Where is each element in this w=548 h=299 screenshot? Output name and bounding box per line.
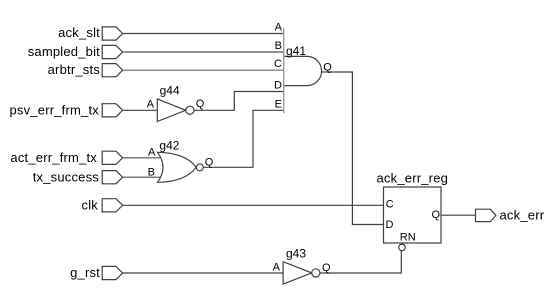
svg-text:C: C xyxy=(386,198,394,210)
svg-text:psv_err_frm_tx: psv_err_frm_tx xyxy=(10,103,100,118)
svg-text:g_rst: g_rst xyxy=(70,265,100,280)
svg-text:Q: Q xyxy=(205,157,214,169)
svg-text:A: A xyxy=(147,99,155,111)
svg-text:B: B xyxy=(275,40,282,52)
port ack_slt xyxy=(58,25,122,40)
svg-text:A: A xyxy=(148,146,156,158)
g44 pin A xyxy=(147,99,155,111)
g41 pin A xyxy=(275,21,283,33)
g42 pin A xyxy=(148,146,156,158)
g41 pin C xyxy=(274,58,282,70)
g42 pin B xyxy=(148,167,155,179)
svg-text:Q: Q xyxy=(432,209,441,221)
g41 label xyxy=(286,44,306,58)
and-gate g41 body xyxy=(284,56,322,85)
svg-text:arbtr_sts: arbtr_sts xyxy=(48,62,101,77)
g44 label xyxy=(160,83,180,97)
wire g41 Q to reg D xyxy=(322,72,384,225)
nor-gate g42 xyxy=(158,152,204,182)
wire g44 Q to g41 D xyxy=(194,92,284,111)
svg-text:A: A xyxy=(275,21,283,33)
svg-text:C: C xyxy=(274,58,282,70)
svg-text:A: A xyxy=(273,262,281,274)
svg-text:D: D xyxy=(386,219,394,231)
g42 pin Q xyxy=(205,157,214,169)
port psv_err_frm_tx xyxy=(10,103,123,118)
g43 pin A xyxy=(273,262,281,274)
and-gate g41 input bar xyxy=(283,28,285,113)
g41 pin B xyxy=(275,40,282,52)
g42 label xyxy=(159,138,179,152)
svg-text:ack_slt: ack_slt xyxy=(58,25,100,40)
svg-text:g41: g41 xyxy=(286,44,306,58)
svg-text:act_err_frm_tx: act_err_frm_tx xyxy=(10,150,97,165)
inverter g44 xyxy=(157,99,194,122)
wire sampled_bit to g41 B xyxy=(123,51,284,53)
port g_rst xyxy=(70,265,123,280)
svg-text:D: D xyxy=(274,79,282,91)
svg-text:Q: Q xyxy=(196,98,205,110)
wire tx_success to g42 B xyxy=(123,176,165,178)
g44 pin Q xyxy=(196,98,205,110)
svg-text:clk: clk xyxy=(82,198,99,213)
svg-text:ack_err: ack_err xyxy=(500,208,545,223)
port tx_success xyxy=(33,169,123,184)
svg-text:RN: RN xyxy=(400,231,416,243)
port arbtr_sts xyxy=(48,62,123,77)
reg RN bubble xyxy=(399,244,406,251)
svg-text:g43: g43 xyxy=(286,246,306,260)
wire act_err_frm_tx to g42 A xyxy=(123,157,164,159)
g41 pin E xyxy=(275,98,282,110)
g43 label xyxy=(286,246,306,260)
wire psv_err_frm_tx to g44 A xyxy=(123,109,158,111)
wire g43 Q to reg RN xyxy=(320,251,401,273)
reg pin D xyxy=(386,219,394,231)
wire g_rst to g43 A xyxy=(123,272,284,274)
wire ack_slt to g41 A xyxy=(123,33,284,35)
g43 pin Q xyxy=(322,262,331,274)
reg pin C xyxy=(386,198,394,210)
svg-text:B: B xyxy=(148,167,155,179)
inverter g43 xyxy=(283,262,320,284)
port clk xyxy=(82,198,123,213)
svg-text:sampled_bit: sampled_bit xyxy=(28,44,100,59)
reg pin RN xyxy=(400,231,416,243)
svg-text:ack_err_reg: ack_err_reg xyxy=(377,171,449,186)
g41 pin D xyxy=(274,79,282,91)
port ack_err xyxy=(476,208,545,223)
reg pin Q xyxy=(432,209,441,221)
svg-text:Q: Q xyxy=(322,262,331,274)
svg-text:g44: g44 xyxy=(160,83,180,97)
wire g42 Q to g41 E xyxy=(203,110,283,167)
svg-text:tx_success: tx_success xyxy=(33,169,100,184)
svg-text:g42: g42 xyxy=(159,138,179,152)
register label xyxy=(377,171,449,186)
wire arbtr_sts to g41 C xyxy=(123,69,284,71)
port sampled_bit xyxy=(28,44,123,59)
svg-text:E: E xyxy=(275,98,282,110)
wire reg Q to ack_err port xyxy=(441,214,476,216)
register ack_err_reg box xyxy=(384,187,442,243)
svg-text:Q: Q xyxy=(323,61,332,73)
g41 pin Q xyxy=(323,61,332,73)
wire clk to reg C xyxy=(123,204,384,206)
port act_err_frm_tx xyxy=(10,150,122,165)
